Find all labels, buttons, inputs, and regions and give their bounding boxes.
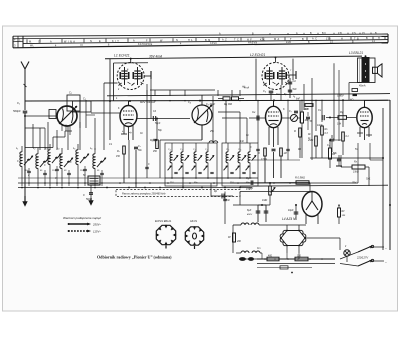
svg-text:B.C: B.C bbox=[322, 32, 326, 35]
svg-text:L₆: L₆ bbox=[90, 147, 92, 150]
svg-text:W: W bbox=[160, 39, 163, 42]
svg-text:Ad: Ad bbox=[241, 86, 246, 89]
svg-text:C₄: C₄ bbox=[188, 101, 191, 104]
svg-text:50pF: 50pF bbox=[155, 123, 161, 125]
svg-text:220/127V: 220/127V bbox=[356, 256, 368, 260]
svg-text:6nF: 6nF bbox=[296, 99, 301, 101]
svg-text:L₁: L₁ bbox=[16, 147, 18, 150]
svg-text:B: B bbox=[352, 41, 354, 43]
svg-text:B: B bbox=[308, 42, 310, 44]
svg-text:B: B bbox=[366, 37, 368, 40]
svg-text:U80V: U80V bbox=[337, 94, 344, 98]
svg-text:45mA: 45mA bbox=[359, 85, 366, 88]
svg-text:C₂₃: C₂₃ bbox=[226, 149, 229, 151]
svg-text:15: 15 bbox=[330, 42, 334, 44]
svg-text:W I N A: W I N A bbox=[64, 40, 75, 43]
svg-text:A.C: A.C bbox=[312, 38, 317, 41]
svg-text:C₁: C₁ bbox=[17, 101, 20, 105]
svg-text:B: B bbox=[302, 38, 304, 41]
svg-text:ECH21 EBL21: ECH21 EBL21 bbox=[155, 220, 172, 223]
svg-text:K.K: K.K bbox=[260, 38, 265, 41]
svg-text:1MΩ: 1MΩ bbox=[262, 199, 267, 202]
svg-text:10nF: 10nF bbox=[317, 124, 323, 127]
svg-text:4Ω: 4Ω bbox=[350, 98, 353, 102]
svg-text:III: III bbox=[80, 45, 83, 47]
svg-text:M.: M. bbox=[29, 41, 33, 44]
svg-text:ZŁB: ZŁB bbox=[286, 42, 291, 44]
svg-text:Rf: Rf bbox=[228, 236, 231, 239]
svg-text:L4 AZ4 N: L4 AZ4 N bbox=[282, 217, 296, 221]
svg-text:110: 110 bbox=[297, 255, 301, 258]
svg-text:Wartości podłączenia napięć: Wartości podłączenia napięć bbox=[63, 216, 102, 220]
svg-text:B.M: B.M bbox=[205, 39, 211, 42]
svg-text:n₄: n₄ bbox=[293, 95, 295, 98]
svg-text:Pasmo zakresu przegłosu 250: Pasmo zakresu przegłosu 250/465 kHz bbox=[122, 192, 166, 195]
svg-text:Z.S: Z.S bbox=[352, 32, 356, 35]
svg-text:F: F bbox=[146, 39, 148, 42]
svg-text:16µF: 16µF bbox=[288, 209, 294, 212]
svg-text:T C: T C bbox=[234, 39, 239, 42]
svg-text:C₃: C₃ bbox=[83, 98, 86, 101]
svg-text:2MΩ: 2MΩ bbox=[307, 139, 313, 142]
svg-text:O: O bbox=[38, 41, 40, 44]
svg-text:H F: H F bbox=[247, 38, 252, 41]
svg-text:KATOWICE: KATOWICE bbox=[138, 43, 153, 46]
svg-text:~: ~ bbox=[385, 246, 387, 250]
svg-text:36V 4mA: 36V 4mA bbox=[149, 54, 162, 58]
svg-text:N: N bbox=[176, 39, 178, 42]
svg-text:~: ~ bbox=[385, 260, 387, 264]
svg-text:L₂: L₂ bbox=[33, 147, 35, 150]
svg-text:C₁₉: C₁₉ bbox=[193, 149, 196, 151]
svg-text:T B: T B bbox=[354, 37, 359, 40]
svg-text:Odbiornik radiowy „Pionier U”: Odbiornik radiowy „Pionier U” (odmiana) bbox=[97, 254, 172, 259]
svg-text:500pF: 500pF bbox=[13, 109, 21, 113]
svg-text:E: E bbox=[99, 40, 101, 43]
svg-text:C₂₁: C₂₁ bbox=[205, 149, 208, 151]
svg-text:8µF: 8µF bbox=[247, 209, 252, 212]
svg-text:A: A bbox=[50, 41, 52, 44]
svg-text:F: F bbox=[14, 38, 16, 42]
svg-text:1M: 1M bbox=[284, 153, 287, 155]
svg-text:Z.B: Z.B bbox=[326, 38, 331, 41]
svg-text:Z.B: Z.B bbox=[338, 32, 342, 35]
svg-text:115V~: 115V~ bbox=[93, 229, 101, 233]
svg-text:A: A bbox=[133, 40, 135, 43]
svg-text:C₂₅: C₂₅ bbox=[238, 149, 241, 151]
svg-text:Cw: Cw bbox=[252, 112, 256, 114]
svg-text:Rg 360: Rg 360 bbox=[224, 103, 233, 106]
svg-text:AZ4 N: AZ4 N bbox=[190, 220, 197, 223]
svg-text:5nF: 5nF bbox=[249, 188, 254, 191]
svg-text:450V: 450V bbox=[247, 213, 253, 216]
svg-text:L₃: L₃ bbox=[45, 147, 47, 150]
svg-text:H: H bbox=[341, 37, 343, 40]
svg-text:T: T bbox=[290, 38, 292, 41]
svg-text:L₅: L₅ bbox=[73, 147, 75, 150]
svg-text:M A: M A bbox=[274, 38, 280, 41]
svg-text:H Ł: H Ł bbox=[188, 39, 193, 42]
svg-text:C₅: C₅ bbox=[263, 89, 266, 93]
svg-text:A.Z: A.Z bbox=[222, 39, 227, 42]
svg-text:Cm: Cm bbox=[257, 248, 261, 250]
svg-text:C₁₅: C₁₅ bbox=[168, 149, 171, 151]
svg-text:WŁ: WŁ bbox=[30, 46, 34, 48]
svg-text:K I T: K I T bbox=[112, 40, 119, 43]
svg-text:N: N bbox=[90, 40, 92, 43]
svg-text:C₂: C₂ bbox=[69, 92, 72, 95]
svg-text:5nF: 5nF bbox=[293, 88, 298, 91]
svg-text:C: C bbox=[83, 193, 85, 197]
svg-text:Gn1: Gn1 bbox=[366, 179, 371, 181]
svg-text:200: 200 bbox=[236, 241, 242, 243]
svg-text:C₇: C₇ bbox=[289, 110, 292, 113]
svg-text:250V~: 250V~ bbox=[92, 222, 102, 226]
svg-text:L2 ECH21: L2 ECH21 bbox=[250, 53, 265, 57]
svg-text:Tr: Tr bbox=[48, 156, 50, 159]
svg-text:L₄: L₄ bbox=[57, 147, 59, 150]
svg-text:XXVII: XXVII bbox=[210, 43, 217, 45]
svg-text:H: H bbox=[378, 37, 380, 40]
svg-text:L3 EBL21: L3 EBL21 bbox=[349, 51, 363, 55]
svg-text:C₁₇: C₁₇ bbox=[180, 149, 183, 151]
svg-text:R 0.5MΩ: R 0.5MΩ bbox=[295, 177, 305, 180]
svg-text:Tr: Tr bbox=[76, 156, 78, 159]
svg-text:HASVN: HASVN bbox=[248, 42, 257, 45]
svg-text:12: 12 bbox=[372, 41, 376, 43]
svg-text:L1 ECH21: L1 ECH21 bbox=[114, 54, 130, 58]
svg-text:25p: 25p bbox=[209, 131, 215, 133]
svg-text:C₉: C₉ bbox=[327, 144, 330, 147]
svg-text:400: 400 bbox=[268, 255, 273, 258]
svg-text:R: R bbox=[294, 130, 296, 133]
